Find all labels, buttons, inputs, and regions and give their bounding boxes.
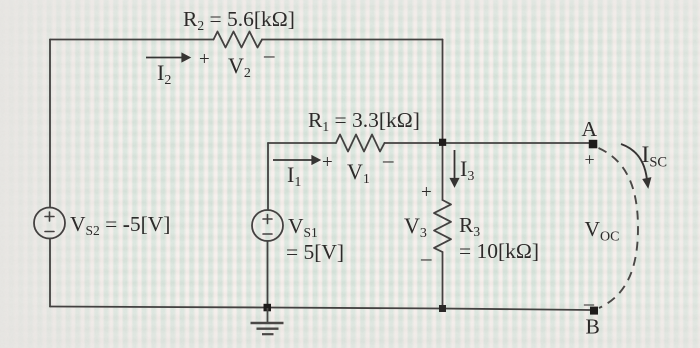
svg-text:A: A (582, 117, 598, 141)
wire top-right segment (262, 39, 443, 41)
svg-text:R2 = 5.6[kΩ]: R2 = 5.6[kΩ] (183, 7, 295, 33)
wire R1 left lead with corner down to VS1 (268, 142, 336, 144)
arrow Isc (621, 144, 650, 187)
svg-text:R1 = 3.3[kΩ]: R1 = 3.3[kΩ] (308, 108, 420, 134)
wire VS1 upper (267, 143, 269, 210)
wire right vertical upper (442, 40, 444, 144)
svg-text:V1: V1 (347, 159, 370, 187)
junction node at ground (264, 304, 272, 312)
svg-text:VS2 = -5[V]: VS2 = -5[V] (70, 212, 170, 238)
wire from junction to node A (443, 142, 591, 144)
svg-text:VS1: VS1 (288, 214, 318, 240)
voltage source VS1 (252, 210, 283, 241)
svg-text:I3: I3 (460, 156, 474, 184)
svg-text:–: – (382, 148, 394, 172)
current arrow I2 (146, 53, 190, 61)
svg-text:+: + (322, 152, 333, 173)
voltage source VS2 (34, 208, 65, 239)
svg-text:I1: I1 (287, 162, 301, 190)
svg-text:= 10[kΩ]: = 10[kΩ] (459, 239, 539, 263)
svg-text:ISC: ISC (642, 142, 668, 171)
wire bottom (50, 307, 592, 311)
resistor R1 (336, 135, 385, 152)
svg-text:I2: I2 (157, 60, 171, 88)
resistor R2 (214, 32, 263, 48)
wire VS1 lower (267, 241, 269, 308)
svg-text:–: – (420, 246, 432, 270)
resistor R3 (434, 200, 451, 252)
node A (589, 140, 598, 149)
svg-text:+: + (421, 182, 432, 203)
svg-text:R3: R3 (459, 213, 480, 239)
svg-text:–: – (263, 43, 275, 67)
junction node at R1/R3/A (439, 139, 446, 146)
wire left upper (49, 40, 51, 208)
svg-text:VOC: VOC (585, 217, 620, 245)
current arrow I1 (273, 156, 320, 164)
svg-text:V2: V2 (228, 53, 251, 81)
wire R3 lower lead (442, 252, 444, 309)
current arrow I3 (450, 150, 458, 187)
wire left lower (49, 239, 51, 307)
svg-text:B: B (586, 315, 600, 339)
dashed arc from A to B (599, 148, 639, 308)
svg-text:= 5[V]: = 5[V] (286, 240, 344, 264)
wire top-left segment (50, 39, 214, 41)
junction node bottom R3 (439, 305, 446, 312)
svg-text:V3: V3 (404, 213, 427, 241)
wire R1 right lead (385, 142, 443, 144)
ground (251, 308, 284, 334)
svg-text:+: + (199, 49, 210, 70)
svg-text:+: + (585, 150, 595, 170)
wire R3 upper lead (442, 143, 444, 200)
svg-text:–: – (583, 293, 595, 315)
node B (590, 307, 598, 315)
